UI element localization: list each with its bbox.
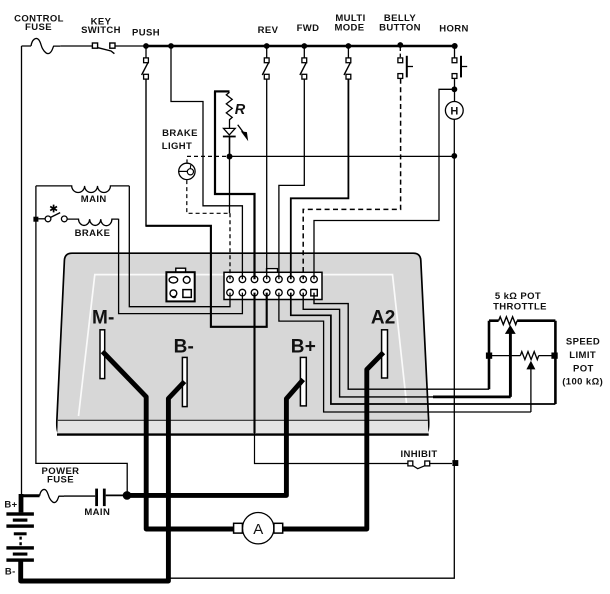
wire: horn switch to horn xyxy=(454,79,456,102)
node: bus end junction HORN xyxy=(452,43,458,49)
fuse F1 CONTROL FUSE (S-curve) xyxy=(31,38,60,53)
svg-text:B-: B- xyxy=(5,567,16,578)
svg-text:HORN: HORN xyxy=(439,23,469,34)
potentiometer VR2 speed limit 100k xyxy=(489,352,555,412)
wire: A2 thick cable to motor xyxy=(283,353,384,530)
wire: dashed bulb bottom run xyxy=(187,180,230,213)
wire: connector bottom pin 14 to pot low side xyxy=(291,293,556,404)
node: LED / brake light junction xyxy=(227,154,233,160)
node: bus junction FWD xyxy=(301,43,307,49)
fuse F2 POWER FUSE (S-curve) xyxy=(40,489,64,502)
wire: dashed into connector top pin 1 xyxy=(229,213,231,279)
battery BT1 xyxy=(6,512,34,562)
svg-text:PUSH: PUSH xyxy=(132,28,160,39)
wire: top bus thin (left rail top to PUSH) xyxy=(22,45,147,47)
svg-text:BRAKE: BRAKE xyxy=(162,128,198,139)
resistor R (zigzag) xyxy=(226,92,232,128)
wire: power fuse to main contacts xyxy=(64,495,95,497)
svg-text:FUSE: FUSE xyxy=(47,475,74,486)
node: pot left junction (square dot) xyxy=(486,353,492,359)
svg-text:A2: A2 xyxy=(371,308,396,329)
node: bus junction J2-feed xyxy=(168,43,174,49)
wire: LED junction down to dashed corner xyxy=(229,157,231,214)
wire: PUSH switch down xyxy=(145,79,147,226)
wire: PUSH route to connector bottom pin 12 (via case) xyxy=(145,226,266,327)
controller case U1 (gray trapezoid body) xyxy=(57,253,429,435)
switch S1 KEY SWITCH xyxy=(92,43,115,54)
node: bus junction MULTI MODE xyxy=(346,43,352,49)
svg-text:INHIBIT: INHIBIT xyxy=(400,449,437,460)
node: inhibit junction on right rail (square dot) xyxy=(452,460,458,466)
wire: M- thick cable to motor xyxy=(103,352,234,530)
svg-text:MAIN: MAIN xyxy=(84,507,110,518)
svg-text:BUTTON: BUTTON xyxy=(379,22,421,33)
terminal A2 bar xyxy=(382,330,388,378)
svg-text:M-: M- xyxy=(92,308,115,329)
svg-text:5 kΩ POT: 5 kΩ POT xyxy=(495,291,541,302)
svg-text:(100 kΩ): (100 kΩ) xyxy=(562,377,603,388)
svg-text:FWD: FWD xyxy=(297,23,320,34)
svg-text:B+: B+ xyxy=(4,499,17,510)
LED D1 xyxy=(223,125,248,154)
wire: B- thick cable to battery xyxy=(21,382,185,582)
wire: brake light line (junction to horn rail) xyxy=(230,155,455,157)
svg-text:REV: REV xyxy=(258,25,279,36)
lamp B (brake light bulb) xyxy=(178,163,195,179)
connector J1 (16-pin) tab xyxy=(267,269,278,273)
svg-text:B+: B+ xyxy=(291,337,316,358)
node: bus junction PUSH xyxy=(143,43,149,49)
inductor L1 MAIN contactor coil xyxy=(36,186,129,193)
inductor L2 BRAKE coil xyxy=(67,219,118,226)
wire: connector bottom pin 13 to speed limit pot wiper xyxy=(279,293,531,412)
svg-text:H: H xyxy=(450,106,458,118)
wire: top bus thick (PUSH to HORN) xyxy=(146,45,455,47)
wire: FWD switch to connector top pin 5 xyxy=(279,79,304,279)
svg-text:R: R xyxy=(235,102,246,118)
node: horn bottom junction xyxy=(451,153,457,159)
wire: dashed brake light to bulb xyxy=(187,156,226,162)
wire: horn junction loop to connector top pin 8 xyxy=(314,89,454,279)
svg-text:SPEED: SPEED xyxy=(566,337,600,348)
connector J2 (4-pin) tab xyxy=(176,268,186,273)
connector J1 bottom pin 16 (square) xyxy=(311,289,318,296)
svg-text:POT: POT xyxy=(573,363,594,374)
terminal M- bar xyxy=(100,330,105,379)
wire: left rail (control fuse loop down to battery B+) xyxy=(21,46,23,495)
node: bus junction BELLY BUTTON xyxy=(397,42,403,48)
wire: bus J2-feed to connector top pin 2 xyxy=(171,46,242,279)
wire: battery B+ lead and power fuse feed xyxy=(21,494,40,497)
switch S4 FWD xyxy=(300,46,307,79)
potentiometer VR1 5k throttle (zigzag + rails) xyxy=(489,317,555,404)
svg-text:SWITCH: SWITCH xyxy=(81,25,121,36)
wire: right rail (horn junction down to bottom return) xyxy=(170,156,455,578)
switch S5 MULTI MODE xyxy=(344,46,351,79)
wire: thick feed to connector top pin 3 xyxy=(215,91,255,279)
svg-text:B-: B- xyxy=(174,336,194,357)
switch S6 BELLY BUTTON (pushbutton) xyxy=(398,48,413,79)
node: main power junction xyxy=(123,491,132,500)
wire: dashed BELLY BUTTON to connector top pin 7 xyxy=(303,79,400,279)
node: bus junction REV xyxy=(264,43,270,49)
switch S8 brake (asterisk) xyxy=(38,205,67,222)
connector J2 pin 2 xyxy=(183,277,190,284)
switch S7 HORN (pushbutton) xyxy=(452,46,467,78)
wire: REV switch to connector top pin 4 xyxy=(266,79,268,279)
connector J2 pin 1 xyxy=(169,277,178,283)
svg-text:THROTTLE: THROTTLE xyxy=(493,301,547,312)
wire: connector bottom pin 16 to throttle pot high side xyxy=(314,293,489,390)
node: pot right junction (square dot) xyxy=(551,353,557,359)
connector J1 top row pins 1-8 xyxy=(227,276,318,283)
svg-text:BRAKE: BRAKE xyxy=(75,228,111,239)
connector J2 pin 3 xyxy=(170,290,177,297)
switch S2 PUSH xyxy=(142,46,149,79)
wire: MAIN coil to connector bottom pin 9 xyxy=(129,186,230,307)
connector J1 bottom row pins 9-15 xyxy=(227,289,307,296)
svg-text:LIMIT: LIMIT xyxy=(569,350,596,361)
svg-text:MAIN: MAIN xyxy=(81,194,107,205)
wire: horn to lower junction xyxy=(453,119,455,156)
terminal B+ bar xyxy=(300,357,306,406)
connector J2 pin 4 xyxy=(183,290,191,298)
svg-text:FUSE: FUSE xyxy=(25,22,52,33)
svg-text:LIGHT: LIGHT xyxy=(162,141,193,152)
wire: MULTI MODE switch to connector top pin 6 xyxy=(291,79,349,279)
controller case bottom rim band xyxy=(57,420,429,434)
wire: resistor branch top connect xyxy=(214,90,230,92)
motor A (armature) xyxy=(234,513,283,544)
node: brake switch junction (square dot) xyxy=(33,217,38,222)
switch S9 INHIBIT xyxy=(408,461,452,469)
wire: BRAKE coil to connector bottom pin 10 xyxy=(119,219,243,314)
terminal B- bar xyxy=(182,357,187,406)
wire: aux left branch (MAIN coil node down to power junction) xyxy=(36,186,127,493)
horn H1 xyxy=(445,102,463,120)
wire: connector bottom pin 15 to throttle pot wiper xyxy=(303,293,433,397)
svg-text:A: A xyxy=(253,521,263,538)
node: horn top junction xyxy=(452,86,458,92)
wire: B+ thick cable to main contactor junction xyxy=(127,380,303,496)
controller case white molding highlight xyxy=(79,275,407,416)
contactor MAIN contacts xyxy=(95,489,98,507)
svg-text:MODE: MODE xyxy=(334,22,364,33)
switch S3 REV xyxy=(262,46,269,79)
connector J1 (16-pin) body xyxy=(224,272,322,299)
connector J2 (4-pin) body xyxy=(166,272,194,301)
wire: connector bottom pin 11 to INHIBIT (thick in case) xyxy=(253,293,255,433)
